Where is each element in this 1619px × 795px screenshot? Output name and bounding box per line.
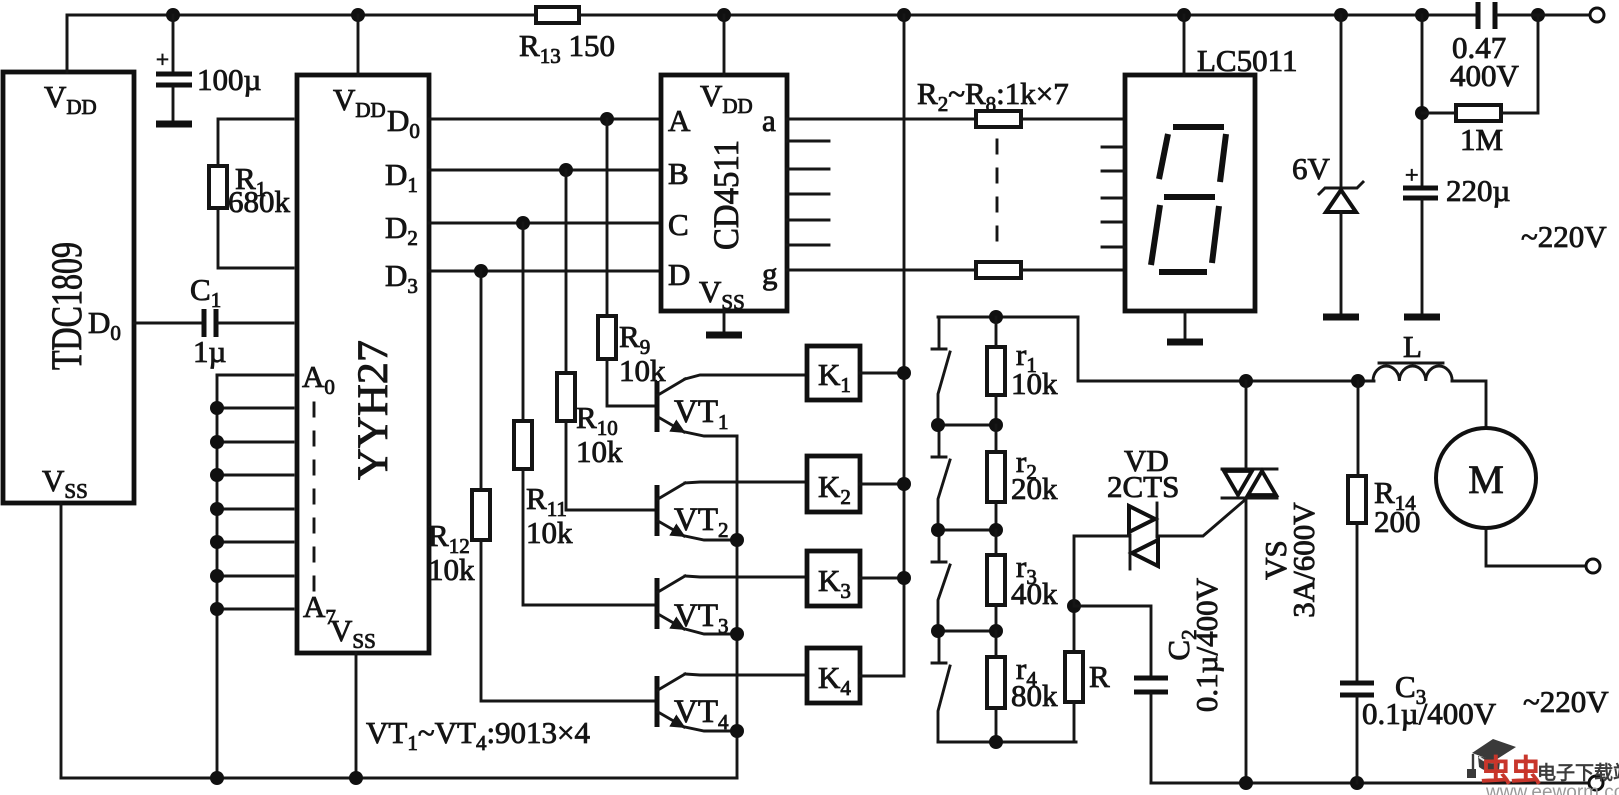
svg-text:D0: D0 [387, 103, 420, 143]
wire 0.47 cap to terminal [1497, 14, 1590, 17]
wire VT3 emitter to bus [685, 629, 737, 634]
svg-text:LC5011: LC5011 [1197, 43, 1297, 78]
resistor r3 40k [987, 530, 1058, 631]
node K2 rail [897, 477, 911, 491]
node K1 rail [897, 366, 911, 380]
node r1 top [989, 310, 1003, 324]
resistor R9 10k [598, 119, 666, 406]
motor M [1436, 428, 1536, 528]
wire A0 stub [217, 374, 293, 377]
svg-text:1µ: 1µ [193, 334, 226, 369]
wire K1 to rail [860, 372, 904, 375]
svg-text:VSS: VSS [330, 613, 376, 653]
svg-text:VSS: VSS [699, 274, 745, 314]
segment a [1173, 124, 1224, 130]
wire tap1 bar [938, 424, 996, 427]
wire D3 to D [429, 270, 661, 273]
wire segment c stub [787, 168, 829, 171]
ground: 100u [156, 121, 192, 128]
resistor R10 10k [557, 170, 655, 510]
node A6 [210, 569, 224, 583]
svg-text:~220V: ~220V [1521, 219, 1607, 254]
resistor r1 10k [987, 317, 1058, 425]
node tap1 right [989, 418, 1003, 432]
transistor VT1 [657, 379, 729, 434]
svg-text:2CTS: 2CTS [1107, 469, 1179, 504]
node VT2 emitter [730, 533, 744, 547]
node: LC5011 VDD junction [1177, 8, 1191, 22]
svg-text:C: C [668, 207, 689, 242]
switch K2 contact [932, 425, 950, 530]
wire r-chain top bar [938, 316, 1078, 319]
resistor r2 20k [987, 425, 1058, 530]
wire RC to C2 [1074, 606, 1151, 676]
terminal: AC line top right [1590, 8, 1604, 22]
svg-text:VDD: VDD [333, 82, 386, 122]
svg-text:6V: 6V [1292, 151, 1331, 186]
node TDC VSS rail [210, 771, 224, 785]
node: 0.47 cap right junction [1531, 8, 1545, 22]
resistor r4 80k [987, 631, 1058, 742]
svg-text:1M: 1M [1460, 122, 1503, 157]
wire D1 to B [429, 169, 661, 172]
svg-text:K3: K3 [818, 563, 851, 603]
transistor VT2 [657, 483, 729, 542]
svg-text:D2: D2 [385, 210, 418, 250]
wire VT4 emitter to bus [685, 727, 737, 731]
segment e [1151, 205, 1160, 265]
ground: CD4511 [706, 332, 742, 339]
svg-text:VT4: VT4 [674, 694, 729, 734]
resistor 1M [1422, 15, 1538, 157]
relay K3 [807, 551, 860, 606]
svg-text:CD4511: CD4511 [706, 140, 746, 250]
wire motor to terminal [1486, 528, 1587, 566]
wire bottom bar r-chain [938, 741, 1076, 744]
svg-text:K4: K4 [818, 660, 851, 700]
wire segment e stub [787, 219, 829, 222]
node tap3 right [989, 624, 1003, 638]
svg-text:100µ: 100µ [197, 62, 261, 97]
transistor VT4 [657, 674, 729, 734]
display LC5011 [1125, 43, 1297, 311]
node C3 bottom [1350, 776, 1364, 790]
svg-text:L: L [1403, 329, 1422, 364]
segment c [1212, 206, 1219, 263]
wire D2 to C [429, 222, 661, 225]
ground: 220u [1404, 314, 1440, 321]
wire A4 stub [217, 508, 293, 511]
svg-text:K1: K1 [818, 357, 851, 397]
svg-text:TDC1809: TDC1809 [44, 242, 91, 370]
svg-text:0.1µ/400V: 0.1µ/400V [1189, 577, 1224, 712]
svg-text:g: g [762, 256, 778, 291]
resistor R12 10k [428, 271, 655, 701]
triac VS [1222, 381, 1321, 783]
svg-text:M: M [1468, 457, 1504, 502]
wire r-chain top to triac line [1078, 317, 1374, 381]
svg-text:VSS: VSS [42, 463, 88, 503]
terminal motor output [1586, 559, 1600, 573]
wire VT2 collector to K2 [685, 482, 807, 483]
node triac top junction [1239, 374, 1253, 388]
svg-text:D3: D3 [385, 258, 418, 298]
svg-text:400V: 400V [1450, 58, 1520, 93]
IC U1 TDC1809 [3, 72, 134, 503]
terminal AC bottom right [1589, 776, 1603, 790]
wire bottom rail right [1151, 782, 1589, 785]
svg-text:YYH27: YYH27 [350, 340, 397, 480]
capacitor 0.47/400V [1450, 2, 1520, 93]
inductor L [1373, 329, 1452, 381]
svg-text:D: D [668, 257, 690, 292]
node A1 [210, 401, 224, 415]
node: 0.47 cap left junction [1415, 8, 1429, 22]
svg-text:a: a [762, 103, 776, 138]
IC U3 CD4511 [661, 75, 787, 314]
node: relay rail junction [897, 8, 911, 22]
svg-text:10k: 10k [576, 434, 623, 469]
node VT4 emitter [730, 724, 744, 738]
IC U2 YYH27 [297, 75, 429, 653]
wire bottom ground rail left [61, 777, 737, 780]
resistor R2 1k [787, 111, 1125, 127]
node A2 [210, 435, 224, 449]
wire VT1 emitter to bus [685, 432, 737, 436]
capacitor C2 0.1u/400V [1134, 577, 1224, 783]
svg-text:www.eeworm.com: www.eeworm.com [1485, 782, 1619, 795]
wire A5 stub [217, 541, 293, 544]
svg-text:80k: 80k [1011, 678, 1058, 713]
node A5 [210, 535, 224, 549]
svg-text:R: R [1089, 659, 1110, 694]
svg-text:3A/600V: 3A/600V [1286, 502, 1321, 618]
relay K1 [807, 346, 860, 400]
wire R2-R8 dashed ellipsis [996, 140, 999, 256]
node tap3 left [931, 624, 945, 638]
svg-text:VT2: VT2 [674, 502, 729, 542]
wire VT3 collector to K3 [685, 576, 807, 577]
wire diac input [1074, 536, 1128, 606]
relay K4 [807, 648, 860, 703]
wire D0 to A [429, 118, 661, 121]
svg-text:40k: 40k [1011, 576, 1058, 611]
wire YYH27 VDD drop [357, 15, 360, 75]
wire display stub f [1102, 246, 1125, 249]
wire relay supply rail [860, 15, 904, 676]
diode VD1 zener 6V [1292, 15, 1363, 314]
svg-text:A0: A0 [302, 359, 335, 399]
wire tap2 bar [938, 529, 996, 532]
wire CD4511 VSS [723, 311, 726, 333]
svg-text:220µ: 220µ [1446, 173, 1510, 208]
segment f [1159, 134, 1168, 179]
node YYH27 VSS rail [349, 771, 363, 785]
node D0/R9 [600, 112, 614, 126]
ground: LC5011 [1167, 339, 1203, 346]
node VT3 emitter [730, 627, 744, 641]
node RC phase junction [1067, 599, 1081, 613]
segment g [1164, 194, 1215, 200]
wire display stub c [1102, 170, 1125, 173]
node D3/R12 [474, 264, 488, 278]
switch K3 contact [932, 530, 950, 631]
wire segment b stub [787, 140, 829, 143]
capacitor C 100u [156, 15, 261, 121]
wire A2 stub [217, 441, 293, 444]
svg-text:VT1~VT4:9013×4: VT1~VT4:9013×4 [366, 715, 591, 755]
node tap2 right [989, 523, 1003, 537]
svg-text:+: + [1405, 163, 1419, 189]
segment b [1220, 134, 1226, 182]
node: CD4511 VDD junction [717, 8, 731, 22]
wire segment f stub [787, 244, 829, 247]
capacitor 220u [1403, 15, 1510, 314]
svg-text:+: + [156, 47, 169, 72]
wire A7 stub [217, 608, 293, 611]
wire segment d stub [787, 193, 829, 196]
svg-text:R13 150: R13 150 [519, 28, 615, 68]
watermark logo [1467, 739, 1619, 795]
svg-text:K2: K2 [818, 469, 851, 509]
resistor R1 680k [209, 119, 293, 268]
capacitor C3 0.1u/400V [1340, 669, 1497, 783]
node triac bottom [1239, 776, 1253, 790]
resistor R14 200 [1348, 381, 1421, 681]
node A4 [210, 502, 224, 516]
svg-text:10k: 10k [526, 515, 573, 550]
node A7 [210, 602, 224, 616]
segment d [1159, 269, 1207, 275]
wire VT4 collector to K4 [685, 674, 807, 675]
wire CD4511 VDD drop [723, 15, 726, 75]
switch K1 contact [932, 317, 950, 425]
wire VT1 collector to K1 [685, 375, 807, 379]
svg-text:VT1: VT1 [674, 394, 729, 434]
svg-text:~220V: ~220V [1523, 684, 1609, 719]
svg-text:680k: 680k [228, 184, 291, 219]
wire top VDD rail left segment [67, 15, 536, 72]
node D1/R10 [559, 163, 573, 177]
switch K4 contact [932, 631, 950, 742]
ground: zener [1323, 314, 1359, 321]
node tap2 left [931, 523, 945, 537]
wire display stub e [1102, 221, 1125, 224]
wire display stub d [1102, 197, 1125, 200]
resistor R11 10k [514, 223, 655, 605]
wire K2 to rail [860, 483, 904, 486]
diode VD diac 2CTS [1107, 443, 1179, 569]
node A3 [210, 468, 224, 482]
resistor R13 [536, 7, 579, 23]
wire emitter bus [736, 436, 739, 778]
svg-text:D0: D0 [88, 305, 121, 345]
svg-text:VDD: VDD [700, 78, 753, 118]
wire tap3 bar [938, 630, 996, 633]
wire display stub b [1102, 146, 1125, 149]
svg-text:电子下载站: 电子下载站 [1537, 761, 1619, 784]
wire LC5011 VSS [1184, 311, 1187, 340]
svg-text:A: A [668, 103, 691, 138]
node: 100u junction [166, 8, 180, 22]
wire YYH27 VSS to bottom rail [355, 653, 358, 778]
svg-text:20k: 20k [1011, 471, 1058, 506]
wire diac to triac gate [1157, 499, 1246, 536]
wire top VDD rail right segment [579, 14, 1477, 17]
wire VT2 emitter to bus [685, 536, 737, 540]
wire TDC1809 VDD drop [66, 15, 69, 72]
node r4 bottom [989, 735, 1003, 749]
node 1M tap [1415, 106, 1429, 120]
node tap1 left [931, 418, 945, 432]
resistor R potentiometer [1065, 606, 1110, 742]
node R14/L junction [1351, 374, 1365, 388]
wire A1 stub [217, 407, 293, 410]
relay K2 [807, 456, 860, 512]
node: zener junction [1334, 8, 1348, 22]
wire A6 stub [217, 575, 293, 578]
svg-text:C1: C1 [190, 272, 221, 312]
svg-text:0.1µ/400V: 0.1µ/400V [1362, 696, 1497, 731]
resistor R8 1k [787, 262, 1125, 278]
wire TDC1809 VSS to bottom rail [60, 503, 63, 778]
node K3 rail [897, 571, 911, 585]
bus A0-A7 vertical [216, 375, 219, 778]
wire A3 stub [217, 474, 293, 477]
svg-text:200: 200 [1374, 504, 1421, 539]
wire K3 to rail [860, 577, 904, 580]
wire L to motor [1452, 381, 1486, 428]
svg-text:B: B [668, 156, 689, 191]
svg-text:10k: 10k [428, 552, 475, 587]
svg-text:D1: D1 [385, 157, 418, 197]
capacitor C1 1u [134, 272, 293, 369]
transistor VT3 [657, 576, 729, 638]
wire LC5011 VDD drop [1183, 15, 1186, 75]
svg-text:10k: 10k [1011, 366, 1058, 401]
node: YYH27 VDD junction [351, 8, 365, 22]
node D2/R11 [516, 216, 530, 230]
svg-text:VDD: VDD [44, 79, 97, 119]
